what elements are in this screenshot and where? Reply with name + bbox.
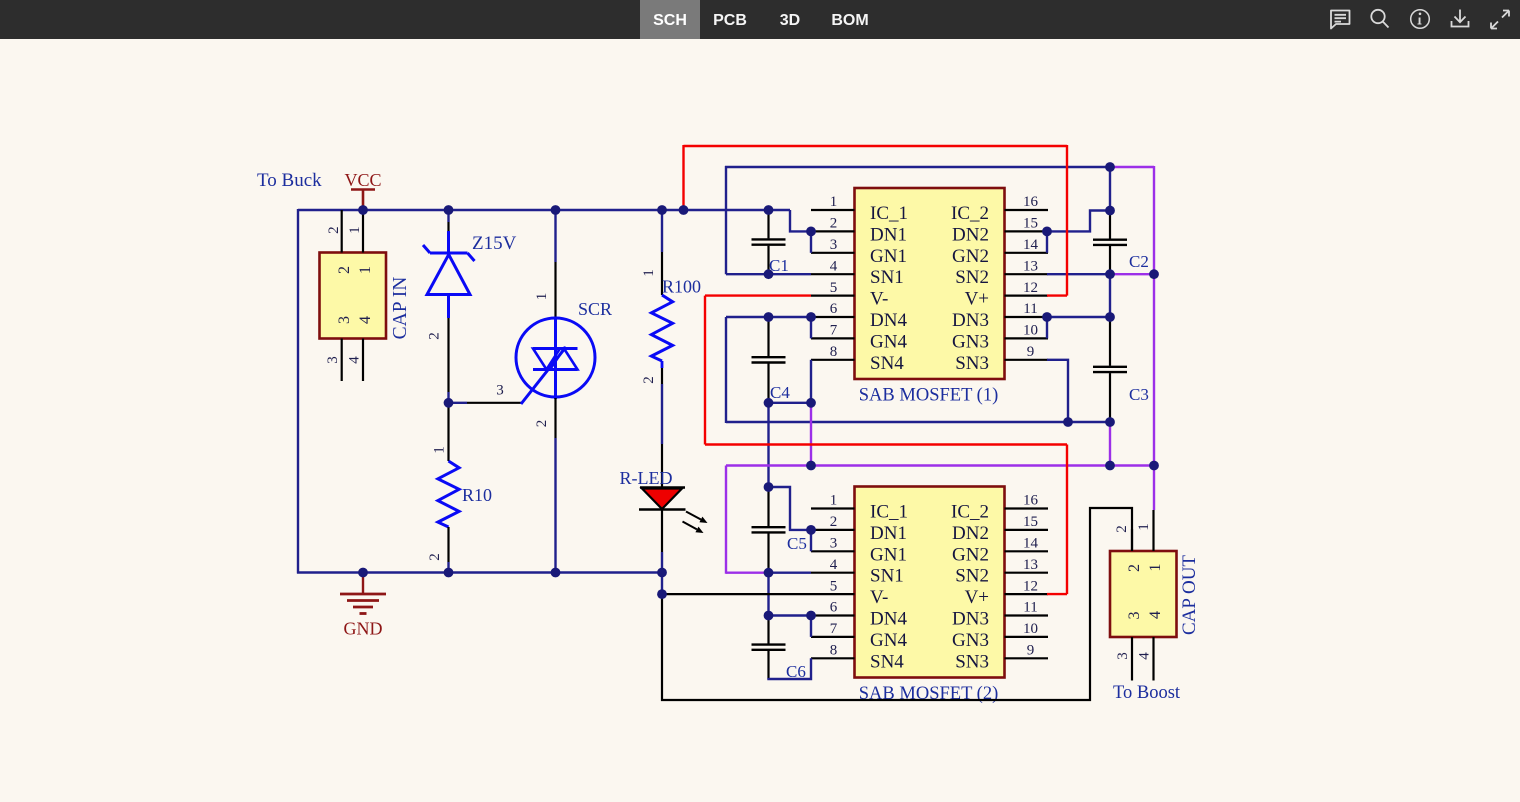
svg-text:4: 4 <box>830 258 838 274</box>
wire purple top right <box>1108 166 1154 168</box>
pin 6 U1 <box>811 316 855 318</box>
svg-text:V+: V+ <box>965 289 989 310</box>
svg-text:2: 2 <box>427 332 443 340</box>
svg-text:Z15V: Z15V <box>472 233 517 254</box>
svg-text:DN4: DN4 <box>870 609 907 630</box>
svg-text:13: 13 <box>1023 557 1038 573</box>
svg-text:1: 1 <box>1136 523 1152 531</box>
svg-text:SN3: SN3 <box>955 353 989 374</box>
svg-text:DN3: DN3 <box>952 310 989 331</box>
svg-text:VCC: VCC <box>344 170 381 190</box>
svg-text:GN1: GN1 <box>870 544 907 565</box>
wire C4-C5 vertical <box>767 403 769 487</box>
wire red left vertical <box>704 296 706 445</box>
pin 2 U1 <box>811 230 855 232</box>
svg-text:GND: GND <box>344 619 383 639</box>
pin 3 stub CAP OUT <box>1131 637 1133 681</box>
capacitor C4 <box>752 317 791 403</box>
wire DN3-GN3 tie <box>1046 317 1048 338</box>
wire purple left drop <box>725 466 727 574</box>
svg-text:SN2: SN2 <box>955 267 989 288</box>
svg-text:8: 8 <box>830 643 838 659</box>
wire C2-C3 vertical <box>1109 274 1111 317</box>
svg-text:5: 5 <box>830 280 838 296</box>
svg-text:11: 11 <box>1023 600 1037 616</box>
svg-text:IC_1: IC_1 <box>870 502 908 523</box>
svg-text:9: 9 <box>1027 643 1035 659</box>
capacitor C6 <box>752 616 806 682</box>
svg-text:1: 1 <box>357 266 374 274</box>
svg-text:GN2: GN2 <box>952 544 989 565</box>
svg-text:3D: 3D <box>780 12 800 29</box>
svg-text:CAP IN: CAP IN <box>390 277 411 340</box>
svg-text:3: 3 <box>496 383 504 399</box>
wire black V- U2 <box>662 593 811 595</box>
svg-text:4: 4 <box>357 316 374 324</box>
svg-text:To Buck: To Buck <box>257 170 322 191</box>
wire C5 top corner to DN1/GN1 U2 <box>769 487 812 530</box>
pin 2 U2 <box>811 529 855 531</box>
wire red V+ stub link <box>1047 294 1067 296</box>
svg-text:6: 6 <box>830 600 838 616</box>
wire C5 bottom to SN1 U2 <box>769 572 812 574</box>
wire C5-C6 vertical <box>767 573 769 616</box>
svg-text:C3: C3 <box>1129 385 1149 404</box>
capacitor C3 <box>1093 317 1149 422</box>
wire DN2-GN2 tie <box>1046 231 1048 252</box>
svg-text:GN4: GN4 <box>870 331 907 352</box>
svg-text:13: 13 <box>1023 258 1038 274</box>
svg-text:V+: V+ <box>965 587 989 608</box>
svg-text:2: 2 <box>830 216 838 232</box>
wire to DN4 <box>726 316 811 318</box>
svg-text:C4: C4 <box>770 383 790 402</box>
IC U1 <box>811 188 1048 406</box>
download icon <box>1452 10 1469 27</box>
svg-text:GN3: GN3 <box>952 331 989 352</box>
svg-text:5: 5 <box>830 578 838 594</box>
wire SN3 loop <box>1047 360 1068 422</box>
svg-text:3: 3 <box>1115 652 1131 660</box>
pin 8 U1 <box>811 359 855 361</box>
pin 2 stub CAP OUT <box>1131 529 1133 551</box>
svg-text:1: 1 <box>347 226 363 234</box>
wire rail corner to DN1/GN1 <box>790 210 811 231</box>
svg-text:BOM: BOM <box>831 12 868 29</box>
pin 4 U1 <box>811 273 855 275</box>
wire C1 bottom to SN1 <box>726 273 811 275</box>
pin 11 U2 <box>1005 614 1049 616</box>
wire DN1-GN1 tie <box>810 231 812 252</box>
svg-text:1: 1 <box>830 194 838 210</box>
svg-text:GN1: GN1 <box>870 246 907 267</box>
wire black output loop <box>662 508 1132 700</box>
capacitor C5 <box>752 487 807 573</box>
svg-text:11: 11 <box>1023 301 1037 317</box>
pin 8 U2 <box>811 657 855 659</box>
svg-text:3: 3 <box>830 536 838 552</box>
resistor R100 <box>641 210 701 444</box>
wire C4 bottom to SN4 riser <box>769 402 812 404</box>
wire red middle horizontal y=444.5 <box>705 443 1067 445</box>
pin 2 stub CAP IN <box>341 210 343 253</box>
svg-text:2: 2 <box>534 420 550 428</box>
pin 13 U2 <box>1005 572 1049 574</box>
svg-text:SN2: SN2 <box>955 566 989 587</box>
wire C6 bottom to SN4 U2 <box>769 658 812 679</box>
ground GND <box>340 573 386 639</box>
wire upper loop rail y=167 <box>725 166 727 274</box>
pin 1 U2 <box>811 507 855 509</box>
svg-text:R10: R10 <box>462 485 492 505</box>
svg-text:1: 1 <box>432 446 448 454</box>
active tab SCH <box>640 0 700 39</box>
svg-text:SN1: SN1 <box>870 267 904 288</box>
power flag VCC <box>344 170 381 210</box>
svg-text:R100: R100 <box>662 277 701 297</box>
wire purple to C5 bottom <box>726 572 769 574</box>
pin 4 stub CAP OUT <box>1152 637 1154 681</box>
pin 12 U2 <box>1005 593 1049 595</box>
wire red right vertical to V+ <box>1066 145 1068 296</box>
pin 15 U2 <box>1005 529 1049 531</box>
svg-text:7: 7 <box>830 323 838 339</box>
svg-text:1: 1 <box>830 493 838 509</box>
pin 3 U2 <box>811 550 855 552</box>
svg-text:12: 12 <box>1023 280 1038 296</box>
svg-text:8: 8 <box>830 344 838 360</box>
wire y167 to C2 <box>1109 166 1111 211</box>
LED R-LED <box>620 444 708 574</box>
wire red V- U1 to left <box>705 294 811 296</box>
svg-text:GN4: GN4 <box>870 630 907 651</box>
svg-text:To Boost: To Boost <box>1113 683 1181 703</box>
wire DN1-GN1 tie U2 <box>810 530 812 551</box>
svg-text:12: 12 <box>1023 578 1038 594</box>
led arrows <box>686 512 701 520</box>
svg-text:3: 3 <box>336 316 353 324</box>
svg-text:15: 15 <box>1023 514 1038 530</box>
wire C6 top to DN4 U2 <box>769 614 812 616</box>
pin 16 U2 <box>1005 507 1049 509</box>
svg-text:DN1: DN1 <box>870 523 907 544</box>
pin 7 U1 <box>811 337 855 339</box>
svg-text:SCH: SCH <box>653 12 687 29</box>
svg-text:IC_2: IC_2 <box>951 502 989 523</box>
capacitor C2 <box>1093 211 1149 275</box>
connector CAP OUT <box>1110 510 1200 681</box>
svg-text:SAB MOSFET (1): SAB MOSFET (1) <box>859 386 998 406</box>
zener diode Z15V <box>423 210 517 403</box>
wire red top horizontal <box>684 145 1068 147</box>
svg-text:7: 7 <box>830 621 838 637</box>
wire purple to CAP OUT pin1 <box>1153 466 1155 511</box>
svg-text:IC_1: IC_1 <box>870 203 908 224</box>
pin 14 U1 <box>1005 252 1049 254</box>
wire LED to V- rail <box>661 574 663 595</box>
pin 15 U1 <box>1005 230 1049 232</box>
svg-text:V-: V- <box>870 289 888 310</box>
wire red V+ U2 stub link <box>1047 593 1067 595</box>
svg-text:PCB: PCB <box>713 12 747 29</box>
svg-text:2: 2 <box>1126 564 1143 572</box>
svg-text:10: 10 <box>1023 621 1038 637</box>
search icon <box>1371 10 1388 28</box>
svg-text:R-LED: R-LED <box>620 468 673 488</box>
wire SN2 to C2 bottom <box>1047 273 1110 275</box>
wire purple C4/SN4 down <box>810 403 812 466</box>
pin 1 U1 <box>811 209 855 211</box>
wire bottom ground rail <box>297 571 662 573</box>
pin 12 U1 <box>1005 295 1049 297</box>
svg-text:10: 10 <box>1023 323 1038 339</box>
pin 16 U1 <box>1005 209 1049 211</box>
svg-text:SN4: SN4 <box>870 651 904 672</box>
pin 10 U2 <box>1005 636 1049 638</box>
svg-text:16: 16 <box>1023 194 1039 210</box>
triac SCR <box>516 210 612 573</box>
svg-text:2: 2 <box>641 376 657 384</box>
resistor R10 <box>427 403 492 573</box>
svg-text:2: 2 <box>1114 525 1130 533</box>
pin 1 stub CAP IN <box>362 210 364 253</box>
wire bottom loop rail y=422 <box>726 421 1110 423</box>
wire purple C3 bottom down <box>1109 422 1111 466</box>
svg-text:14: 14 <box>1023 536 1039 552</box>
svg-text:4: 4 <box>1137 652 1153 660</box>
svg-text:16: 16 <box>1023 493 1039 509</box>
pin 6 U2 <box>811 614 855 616</box>
svg-text:9: 9 <box>1027 344 1035 360</box>
IC U2 <box>811 487 1048 705</box>
svg-text:DN2: DN2 <box>952 224 989 245</box>
pin 14 U2 <box>1005 550 1049 552</box>
svg-text:2: 2 <box>326 226 342 234</box>
svg-text:SN1: SN1 <box>870 566 904 587</box>
capacitor C1 <box>752 210 789 275</box>
svg-text:CAP OUT: CAP OUT <box>1179 555 1200 635</box>
svg-text:V-: V- <box>870 587 888 608</box>
wire left vertical from To Buck <box>297 209 299 574</box>
expand icon <box>1491 11 1509 29</box>
svg-text:15: 15 <box>1023 216 1038 232</box>
pin 5 U2 <box>811 593 855 595</box>
info icon <box>1411 10 1430 29</box>
pin 4 stub CAP IN <box>362 339 364 382</box>
wire purple SN2 to right vertical <box>1110 273 1154 275</box>
pin 13 U1 <box>1005 273 1049 275</box>
pin 3 U1 <box>811 252 855 254</box>
wire red VCC to V+ U1 vertical <box>682 145 684 210</box>
wire DN4-GN4 tie U2 <box>810 616 812 637</box>
pin 3 stub CAP IN <box>341 339 343 382</box>
pin 5 U1 <box>811 295 855 297</box>
svg-text:DN2: DN2 <box>952 523 989 544</box>
wire DN2 to C2 top <box>1047 211 1110 232</box>
svg-text:1: 1 <box>641 269 657 277</box>
pin 11 U1 <box>1005 316 1049 318</box>
pin 10 U1 <box>1005 337 1049 339</box>
wire DN4 loop vertical <box>725 317 727 423</box>
comment icon <box>1331 11 1350 29</box>
svg-text:1: 1 <box>534 293 550 301</box>
top toolbar <box>0 0 1520 39</box>
svg-text:C2: C2 <box>1129 252 1149 271</box>
svg-text:IC_2: IC_2 <box>951 203 989 224</box>
svg-text:DN1: DN1 <box>870 224 907 245</box>
svg-text:1: 1 <box>1147 564 1164 572</box>
svg-text:SCR: SCR <box>578 299 612 319</box>
pin 4 U2 <box>811 572 855 574</box>
svg-text:14: 14 <box>1023 237 1039 253</box>
wire gate horizontal <box>449 402 468 404</box>
svg-text:SN3: SN3 <box>955 651 989 672</box>
pin 9 U1 <box>1005 359 1049 361</box>
svg-text:2: 2 <box>830 514 838 530</box>
svg-text:2: 2 <box>427 553 443 561</box>
svg-text:3: 3 <box>1126 612 1143 620</box>
wire DN4-GN4 tie <box>810 317 812 338</box>
svg-text:4: 4 <box>347 356 363 364</box>
svg-text:4: 4 <box>1147 611 1164 619</box>
pin 9 U2 <box>1005 657 1049 659</box>
svg-text:4: 4 <box>830 557 838 573</box>
connector CAP IN <box>320 210 412 381</box>
gate diagonal <box>521 347 566 404</box>
svg-text:GN3: GN3 <box>952 630 989 651</box>
svg-text:2: 2 <box>336 266 353 274</box>
wire red down to V+ U2 <box>1066 445 1068 595</box>
wire DN3 to C3 top <box>1047 316 1110 318</box>
pin 7 U2 <box>811 636 855 638</box>
wire purple horizontal y=465.5 <box>726 464 1154 466</box>
pin 1 stub CAP OUT <box>1152 510 1154 551</box>
svg-text:DN3: DN3 <box>952 609 989 630</box>
svg-text:3: 3 <box>325 356 341 364</box>
wire VCC top rail y=210 <box>298 209 790 211</box>
svg-text:3: 3 <box>830 237 838 253</box>
svg-text:C5: C5 <box>787 534 807 553</box>
svg-text:GN2: GN2 <box>952 246 989 267</box>
wire purple right vertical <box>1153 166 1155 466</box>
svg-text:SN4: SN4 <box>870 353 904 374</box>
svg-text:DN4: DN4 <box>870 310 907 331</box>
svg-text:6: 6 <box>830 301 838 317</box>
